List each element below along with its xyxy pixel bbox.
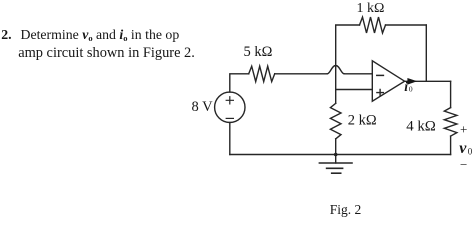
wire hop over feedback [327, 66, 344, 74]
svg-text:5 kΩ: 5 kΩ [244, 44, 273, 60]
svg-text:8 V: 8 V [192, 99, 214, 115]
wire op-amp output [405, 80, 451, 82]
voltage source VS 8V circle [215, 92, 245, 122]
wire source bottom [229, 123, 231, 155]
wire 1k to right vertical [386, 24, 427, 26]
arrowhead output current [407, 78, 417, 85]
feedback left vertical wire [336, 25, 360, 103]
wire output down to 4k [450, 81, 452, 107]
feedback right vertical wire [425, 25, 427, 81]
svg-text:2 kΩ: 2 kΩ [348, 113, 377, 129]
svg-text:Fig. 2: Fig. 2 [330, 202, 362, 217]
svg-text:0: 0 [409, 84, 413, 93]
junction dot rail-ground [334, 153, 338, 157]
ground bar 2 [327, 167, 343, 169]
resistor R 5k [249, 66, 275, 81]
wire 2k bottom through rail to ground [335, 139, 337, 163]
svg-text:amp circuit shown in Figure 2.: amp circuit shown in Figure 2. [18, 45, 195, 61]
svg-text:v: v [459, 140, 467, 157]
resistor R 2k [330, 103, 341, 139]
source plus sign [226, 97, 233, 104]
wire noninverting input [336, 89, 373, 91]
wire source top to main node [230, 74, 249, 92]
resistor R 4k [444, 108, 457, 137]
resistor R 1k [360, 17, 386, 33]
wire hop to inverting input [344, 73, 372, 75]
svg-text:4 kΩ: 4 kΩ [406, 119, 436, 135]
ground bar 3 [332, 172, 341, 174]
wire 5k to hop [275, 73, 328, 75]
op-amp U1 triangle [372, 61, 404, 101]
svg-text:i: i [404, 79, 408, 94]
svg-text:−: − [460, 157, 467, 172]
svg-text:+: + [460, 122, 467, 137]
op-amp plus symbol [377, 89, 383, 95]
wire bottom rail [230, 154, 451, 156]
op-amp minus symbol [377, 74, 384, 76]
svg-text:Determine vo and io in the op: Determine vo and io in the op [21, 27, 180, 43]
svg-text:0: 0 [468, 146, 473, 156]
source minus sign [226, 117, 233, 119]
svg-text:1 kΩ: 1 kΩ [357, 1, 385, 16]
wire 4k bottom to rail [450, 136, 452, 154]
svg-text:2.: 2. [1, 27, 11, 42]
ground bar 1 [319, 162, 352, 164]
